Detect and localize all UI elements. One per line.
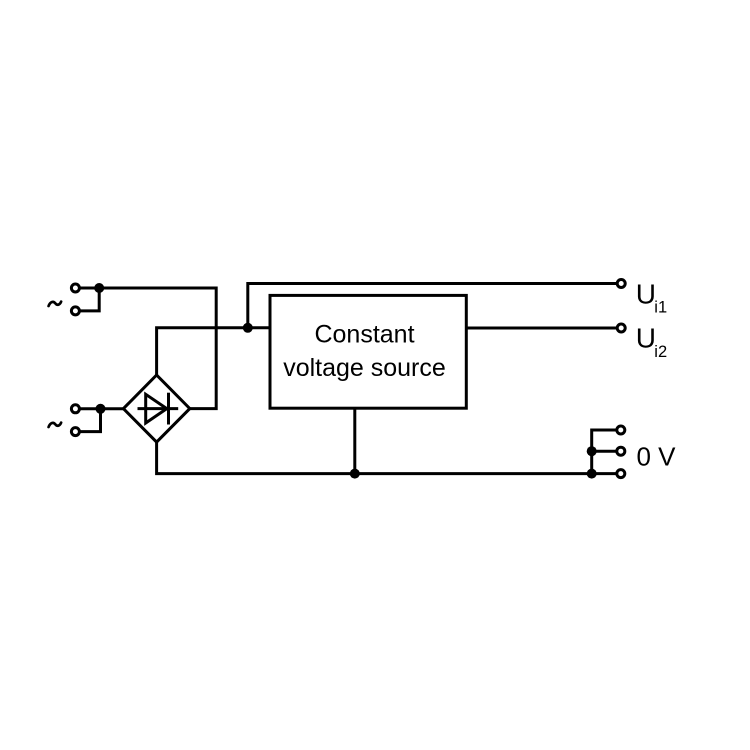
junction dot at 0V bottom terminal xyxy=(587,469,597,479)
wire: box bottom to 0V rail xyxy=(353,408,356,473)
diode symbol horizontal axis line xyxy=(138,407,179,410)
diode symbol anode triangle xyxy=(146,394,167,423)
junction dot at AC1 terminal jumper xyxy=(94,283,104,293)
terminal: 0V middle xyxy=(617,447,625,455)
wire: bridge - output (bottom vertex) along 0V rail xyxy=(157,442,592,474)
wire: branch from node to Ui1 output terminal xyxy=(248,284,621,328)
box: constant voltage source block xyxy=(270,295,466,408)
bridge rectifier diamond outline xyxy=(123,375,189,442)
wire: bridge + output (top vertex) to box input rail xyxy=(157,328,270,375)
AC symbol (~) for input pair 1 xyxy=(49,302,62,306)
wire: 0V middle terminal stub xyxy=(592,450,621,453)
svg-text:0 V: 0 V xyxy=(637,442,677,472)
terminal: AC2 upper xyxy=(71,405,79,413)
svg-text:voltage source: voltage source xyxy=(283,354,446,382)
svg-text:U: U xyxy=(636,279,656,310)
terminal: AC2 lower xyxy=(71,428,79,436)
junction dot at box bottom on 0V rail xyxy=(350,469,360,479)
svg-text:i2: i2 xyxy=(654,343,667,361)
svg-text:i1: i1 xyxy=(654,299,667,317)
svg-text:U: U xyxy=(636,323,656,354)
junction dot at 0V middle terminal xyxy=(587,446,597,456)
diode symbol cathode bar xyxy=(167,393,170,425)
wire: AC input 1 lower terminal jumper xyxy=(75,288,99,311)
junction dot at AC2 terminal jumper xyxy=(96,404,106,414)
wire: box output to Ui2 terminal xyxy=(466,327,621,330)
AC symbol (~) for input pair 2 xyxy=(49,423,62,427)
terminal: AC1 lower xyxy=(71,307,79,315)
terminal: Ui2 output xyxy=(617,324,625,332)
terminal: Ui1 output xyxy=(617,280,625,288)
junction dot at Ui1 branch node xyxy=(243,323,253,333)
wire: AC input 1 upper lead to bridge right vertex xyxy=(75,288,216,409)
wire: AC input 2 lower terminal jumper xyxy=(75,409,100,432)
wire: 0V bottom terminal stub xyxy=(592,472,621,475)
terminal: AC1 upper xyxy=(71,284,79,292)
svg-text:Constant: Constant xyxy=(314,320,414,348)
terminal: 0V top xyxy=(617,426,625,434)
wire: AC input 2 upper lead to bridge left vertex xyxy=(75,407,123,410)
wire: 0V terminal group vertical jumper with top stub xyxy=(592,430,621,474)
terminal: 0V bottom xyxy=(617,470,625,478)
